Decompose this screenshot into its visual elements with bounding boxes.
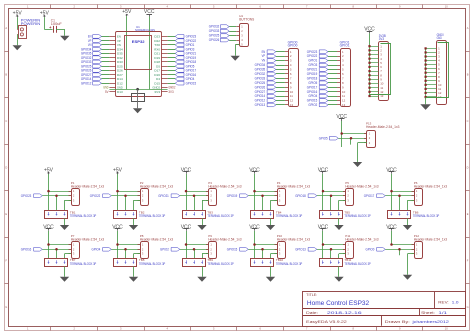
svg-text:GPIO13: GPIO13 — [295, 248, 306, 252]
ground (TB10) — [266, 277, 275, 282]
wire pin1 (P8) — [118, 244, 141, 246]
junction (P6 pin1) — [390, 190, 393, 193]
wire VCC rail (P9) — [186, 231, 188, 259]
wire POWERIN pin2 to ground — [17, 34, 19, 45]
wire +5V rail (P1) — [48, 174, 50, 211]
svg-text:E: E — [467, 212, 469, 216]
wire pin1 (P5) — [323, 191, 346, 193]
power flag VCC (P7) — [43, 224, 54, 230]
junction (P3 pin1) — [185, 190, 188, 193]
wire U1 GND bus — [109, 89, 167, 91]
svg-text:10: 10 — [342, 90, 346, 94]
junction (P3 pin2) — [193, 194, 196, 197]
svg-text:Header-Male-2.54_1x3: Header-Male-2.54_1x3 — [71, 184, 105, 188]
junction (P9 pin1) — [185, 243, 188, 246]
svg-text:G: G — [467, 305, 469, 309]
svg-text:E: E — [5, 212, 7, 216]
svg-text:GPIO16: GPIO16 — [21, 248, 32, 252]
GPIO1 net label flags — [307, 50, 337, 107]
wire pin2 (P8) — [111, 249, 140, 259]
svg-text:GPIO15: GPIO15 — [307, 99, 318, 103]
wire VCC into U1 — [149, 17, 151, 90]
wire GPIO5 to P13 pin2 — [338, 138, 367, 144]
ground (TB5) — [334, 225, 343, 230]
net flag GPIO22 (P2) — [90, 194, 112, 198]
terminal block TB2 TERMINAL BLOCK 3P — [114, 210, 166, 218]
svg-text:GPIO18: GPIO18 — [295, 194, 306, 198]
ground (TB6) — [403, 225, 412, 230]
wire pin1 (P3) — [186, 191, 209, 193]
terminal block TB7 TERMINAL BLOCK 3P — [45, 258, 97, 266]
wire TB10 to ground — [270, 267, 272, 277]
connector P10 Header-Male-2.54_1x3 — [275, 234, 311, 259]
svg-text:GPIO25: GPIO25 — [255, 81, 266, 85]
U1 right GND2 3V3 labels — [168, 86, 175, 94]
svg-text:GPIO15: GPIO15 — [227, 248, 238, 252]
wire pin1 (P10) — [255, 244, 278, 246]
power flag VCC (P11) — [318, 224, 329, 230]
net flag GPIO2 (P9) — [160, 248, 180, 252]
svg-text:GPIO17: GPIO17 — [307, 85, 318, 89]
power flag VCC (P13) — [336, 114, 347, 121]
svg-text:REV:: REV: — [438, 300, 448, 304]
wire pin3 (P3) — [202, 200, 209, 210]
svg-text:TERMINAL BLOCK 3P: TERMINAL BLOCK 3P — [413, 214, 440, 218]
wire +5V to C1 — [44, 17, 52, 29]
svg-text:C: C — [5, 119, 7, 123]
power flag +5V (P2) — [113, 167, 123, 174]
wire VCC to P13 pin1 — [342, 121, 368, 147]
wire TB6 to ground — [407, 218, 409, 225]
svg-text:GPIO22: GPIO22 — [90, 194, 101, 198]
connector GPIO0 header 1x13 — [285, 40, 299, 107]
wire TB7 to ground — [64, 267, 66, 277]
net flag GPIO15 (P10) — [227, 248, 249, 252]
junction (P12 pin2) — [398, 248, 401, 251]
net flag GPIO23 (P1) — [21, 194, 43, 198]
svg-text:GPIO14: GPIO14 — [255, 94, 266, 98]
wire +5V rail (P2) — [117, 174, 119, 211]
wire TB8 to ground — [133, 267, 135, 277]
ground (POWERIN) — [13, 45, 22, 50]
svg-text:jchambers2012: jchambers2012 — [411, 320, 449, 324]
wire VCC rail (P3) — [186, 174, 188, 211]
svg-text:GPIO4: GPIO4 — [92, 248, 101, 252]
svg-text:GPIO12: GPIO12 — [255, 99, 266, 103]
junction (P7 pin2) — [55, 248, 58, 251]
connector P2 Header-Male-2.54_1x3 — [138, 181, 174, 206]
junction (P2 pin1) — [116, 190, 119, 193]
power flag +5V (P1) — [44, 167, 54, 174]
svg-text:TERMINAL BLOCK 3P: TERMINAL BLOCK 3P — [344, 214, 371, 218]
wire pin1 (P12) — [392, 244, 415, 246]
svg-text:GPIO1: GPIO1 — [340, 44, 350, 48]
svg-text:Home Control ESP32: Home Control ESP32 — [307, 300, 370, 307]
wire pin2 (P1) — [42, 196, 71, 211]
net flag GPIO19 (P4) — [227, 194, 249, 198]
ground (TB4) — [266, 225, 275, 230]
svg-text:TERMINAL BLOCK 3P: TERMINAL BLOCK 3P — [139, 214, 166, 218]
wire pin3 (P1) — [65, 200, 72, 210]
svg-text:GPIO4: GPIO4 — [308, 94, 317, 98]
ground (H1) — [231, 56, 240, 61]
power flag VCC (P8) — [112, 224, 123, 230]
svg-text:VP: VP — [262, 54, 266, 58]
svg-text:GPIO23: GPIO23 — [307, 50, 318, 54]
connector P9 Header-Male-2.54_1x3 — [206, 234, 242, 259]
svg-text:3V3: 3V3 — [154, 90, 160, 94]
svg-text:3V3: 3V3 — [379, 37, 384, 41]
wire C1 to ground — [56, 29, 65, 36]
wire pin1 (P2) — [118, 191, 141, 193]
terminal block TB10 TERMINAL BLOCK 3P — [251, 258, 303, 266]
junction (P10 pin2) — [261, 248, 264, 251]
power flag VCC (P3) — [181, 167, 192, 173]
svg-text:GPIO5: GPIO5 — [308, 81, 317, 85]
svg-text:BUTTONS: BUTTONS — [239, 17, 254, 21]
wire pin2 (P11) — [317, 249, 346, 259]
net flag GPIO13 (P11) — [295, 248, 317, 252]
svg-text:3V3: 3V3 — [168, 90, 173, 94]
wire pin1 (P1) — [49, 191, 72, 193]
wire VCC rail (P12) — [391, 231, 393, 245]
svg-text:B: B — [5, 72, 7, 76]
connector P12 Header-Male-2.54_1x3 — [412, 234, 448, 259]
svg-text:TERMINAL BLOCK 3P: TERMINAL BLOCK 3P — [344, 262, 371, 266]
connector P4 Header-Male-2.54_1x3 — [275, 181, 311, 206]
junction (P13 pin1) — [340, 132, 343, 135]
wire TB5 to ground — [338, 218, 340, 225]
wire VCC rail (P7) — [48, 231, 50, 259]
svg-text:GPIO32: GPIO32 — [255, 72, 266, 76]
ground (TB2) — [129, 225, 138, 230]
wire pin3 (P10) — [271, 254, 278, 259]
wire pin2 (P9) — [180, 249, 209, 259]
connector P7 Header-Male-2.54_1x3 — [69, 234, 105, 259]
junction U1 GND — [136, 88, 139, 91]
wire TB11 to ground — [338, 267, 340, 277]
svg-text:12: 12 — [290, 99, 294, 103]
svg-text:GPIO34: GPIO34 — [255, 63, 266, 67]
svg-text:GPIO19: GPIO19 — [227, 194, 238, 198]
wire pin2 (P10) — [248, 249, 277, 259]
wire pin3 (P2) — [134, 200, 141, 210]
junction (P13 pin2) — [350, 137, 353, 140]
U1 left net label flags — [81, 35, 110, 86]
net flag GPIO21 (P3) — [158, 194, 180, 198]
ground (P12) — [403, 275, 412, 280]
connector POWERIN terminal block 2P — [17, 18, 40, 38]
H1 input net flags — [209, 25, 237, 43]
ground (TB3) — [197, 225, 206, 230]
wire TB3 to ground — [202, 218, 204, 225]
terminal block TB9 TERMINAL BLOCK 3P — [183, 258, 235, 266]
svg-text:11: 11 — [290, 94, 293, 98]
svg-text:13: 13 — [342, 103, 346, 107]
svg-text:2018-12-16: 2018-12-16 — [327, 311, 362, 315]
connector GPIO1 header 1x13 — [337, 40, 351, 107]
connector H1 BUTTONS — [236, 14, 254, 47]
svg-text:GPIO32: GPIO32 — [209, 25, 220, 29]
svg-text:GPIO0: GPIO0 — [366, 248, 375, 252]
svg-text:ESP32: ESP32 — [132, 39, 146, 44]
wire pin3 (P7) — [65, 254, 72, 259]
svg-text:GPIO25: GPIO25 — [209, 34, 220, 38]
svg-text:TERMINAL BLOCK 3P: TERMINAL BLOCK 3P — [70, 214, 97, 218]
wire pin2 (P2) — [111, 196, 140, 211]
svg-text:5V: 5V — [105, 90, 109, 94]
svg-text:TERMINAL BLOCK 3P: TERMINAL BLOCK 3P — [139, 262, 166, 266]
wire pin2 (P3) — [180, 196, 209, 211]
wire pin3 (P12) — [408, 254, 415, 275]
wire GND bus (GND header) — [425, 48, 427, 104]
junction dots (GND header) — [425, 47, 427, 98]
wire TB9 to ground — [202, 267, 204, 277]
svg-text:12: 12 — [342, 99, 346, 103]
connector P6 Header-Male-2.54_1x3 — [412, 181, 448, 206]
wire pin3 (P6) — [408, 200, 415, 210]
ground (TB9) — [197, 277, 206, 282]
wire U1 to ground — [137, 89, 139, 108]
svg-text:VCC: VCC — [318, 224, 329, 230]
wire VCC rail (P8) — [117, 231, 119, 259]
svg-text:GPIO1: GPIO1 — [308, 59, 317, 63]
svg-text:GND: GND — [437, 36, 443, 40]
svg-text:GPIO18: GPIO18 — [307, 76, 318, 80]
wire P13 pin3 to ground — [358, 143, 368, 163]
connector P8 Header-Male-2.54_1x3 — [138, 234, 174, 259]
svg-text:Header-Male-2.54_1x3: Header-Male-2.54_1x3 — [277, 184, 311, 188]
ground (P13) — [353, 162, 362, 167]
svg-text:VCC: VCC — [318, 167, 329, 173]
svg-text:10: 10 — [290, 90, 294, 94]
svg-text:TERMINAL BLOCK 3P: TERMINAL BLOCK 3P — [207, 214, 234, 218]
wire VCC rail (P6) — [391, 174, 393, 211]
junction (P4 pin2) — [261, 194, 264, 197]
junction (P1 pin1) — [47, 190, 50, 193]
svg-text:GPIO33: GPIO33 — [255, 76, 266, 80]
terminal block TB8 TERMINAL BLOCK 3P — [114, 258, 166, 266]
junction (P12 pin1) — [390, 243, 393, 246]
svg-text:100uF: 100uF — [51, 22, 62, 26]
svg-text:TERMINAL BLOCK 3P: TERMINAL BLOCK 3P — [276, 214, 303, 218]
module U1 NODEMCU-32S ESP32 — [109, 25, 167, 97]
svg-text:C: C — [467, 119, 469, 123]
connector P5 Header-Male-2.54_1x3 — [343, 181, 379, 206]
connector P3 Header-Male-2.54_1x3 — [206, 181, 242, 206]
svg-text:TERMINAL BLOCK 3P: TERMINAL BLOCK 3P — [207, 262, 234, 266]
ground (TB8) — [129, 277, 138, 282]
junction (P1 pin2) — [55, 194, 58, 197]
connector P1 Header-Male-2.54_1x3 — [69, 181, 105, 206]
svg-text:Header-Male-2.54_1x3: Header-Male-2.54_1x3 — [414, 184, 448, 188]
svg-text:GPIO21: GPIO21 — [307, 68, 318, 72]
connector GND0 header 1x13 — [426, 33, 447, 105]
wire VCC rail (P10) — [254, 231, 256, 259]
svg-text:GPIO13: GPIO13 — [255, 103, 266, 107]
svg-text:1/1: 1/1 — [438, 311, 447, 315]
wire pin1 (P4) — [255, 191, 278, 193]
ground (TB11) — [334, 277, 343, 282]
junction (P4 pin1) — [253, 190, 256, 193]
power flag VCC (U1) — [144, 9, 155, 16]
wire TB2 to ground — [133, 218, 135, 225]
junction dots (3V3 header) — [368, 45, 370, 97]
wire pin2 (P6) — [385, 196, 414, 211]
svg-text:GPIO3: GPIO3 — [308, 63, 317, 67]
svg-text:11: 11 — [342, 94, 345, 98]
junction (P6 pin2) — [398, 194, 401, 197]
svg-text:GPIO35: GPIO35 — [255, 68, 266, 72]
svg-text:GPIO26: GPIO26 — [255, 85, 266, 89]
wire TB1 to ground — [64, 218, 66, 225]
svg-text:GPIO17: GPIO17 — [364, 194, 375, 198]
svg-text:GPIO26: GPIO26 — [209, 38, 220, 42]
wire pin2 (P4) — [248, 196, 277, 211]
U1 left GND 5V labels — [103, 86, 109, 94]
ground (U1) — [133, 108, 142, 113]
title block — [303, 292, 466, 327]
net flag GPIO18 (P5) — [295, 194, 317, 198]
connector 3V3B header 1x13 — [370, 34, 389, 101]
jumper box below U1 — [132, 94, 145, 102]
terminal block TB5 TERMINAL BLOCK 3P — [320, 210, 372, 218]
svg-text:EasyEDA V5.9.22: EasyEDA V5.9.22 — [306, 320, 347, 324]
power flag VCC (P9) — [181, 224, 192, 230]
svg-text:D13: D13 — [117, 90, 123, 94]
svg-text:B: B — [467, 72, 469, 76]
junction (P5 pin1) — [322, 190, 325, 193]
GPIO0 net label flags — [255, 50, 285, 107]
terminal block TB11 TERMINAL BLOCK 3P — [320, 258, 372, 266]
svg-text:GPIO27: GPIO27 — [255, 90, 266, 94]
svg-text:13: 13 — [290, 103, 294, 107]
ground (C1) — [60, 36, 69, 41]
wire VCC rail (P5) — [322, 174, 324, 211]
power flag VCC (P4) — [249, 167, 260, 173]
wire pin3 (P11) — [339, 254, 346, 259]
net flag GPIO5 (P13) — [319, 136, 338, 140]
junction (P10 pin1) — [253, 243, 256, 246]
wire TB4 to ground — [270, 218, 272, 225]
capacitor C1 100uF — [49, 18, 62, 32]
svg-text:Header-Male-2.54_1x3: Header-Male-2.54_1x3 — [366, 125, 400, 129]
ground (TB1) — [60, 225, 69, 230]
wire pin1 (P6) — [392, 191, 415, 193]
wire pin2 (P12) — [385, 249, 414, 255]
svg-text:GPIO5: GPIO5 — [319, 136, 328, 140]
wire pin1 (P9) — [186, 244, 209, 246]
svg-text:GPIO16: GPIO16 — [307, 90, 318, 94]
junction (P5 pin2) — [330, 194, 333, 197]
wire wrap (GND header) — [426, 43, 449, 98]
svg-text:EN: EN — [262, 50, 266, 54]
svg-text:Date:: Date: — [306, 311, 318, 315]
svg-text:Drawn By:: Drawn By: — [385, 320, 410, 324]
wire pin3 (P8) — [134, 254, 141, 259]
svg-text:GPIO22: GPIO22 — [307, 54, 318, 58]
wire pin3 (P4) — [271, 200, 278, 210]
wire VCC bus (3V3 header) — [369, 33, 371, 96]
power flag VCC (P12) — [386, 224, 397, 230]
svg-text:1.0: 1.0 — [452, 300, 459, 304]
terminal block TB1 TERMINAL BLOCK 3P — [45, 210, 97, 218]
svg-text:D: D — [5, 166, 7, 170]
svg-text:GPIO19: GPIO19 — [307, 72, 318, 76]
svg-text:D: D — [467, 166, 469, 170]
wire pin3 (P9) — [202, 254, 209, 259]
svg-text:Sheet:: Sheet: — [421, 311, 435, 315]
junction (P11 pin2) — [330, 248, 333, 251]
wire pin2 (P5) — [317, 196, 346, 211]
svg-text:A: A — [5, 26, 7, 30]
terminal block TB4 TERMINAL BLOCK 3P — [251, 210, 303, 218]
svg-text:GPIO2: GPIO2 — [160, 248, 169, 252]
ground (TB7) — [60, 277, 69, 282]
power flag VCC (3V3 header) — [364, 26, 375, 33]
ground (GND header) — [420, 104, 431, 110]
junction (P8 pin2) — [124, 248, 127, 251]
svg-text:GPIO21: GPIO21 — [158, 194, 169, 198]
svg-text:GPIO0: GPIO0 — [288, 44, 298, 48]
net flag GPIO0 (P12) — [366, 248, 386, 252]
wire VCC rail (P11) — [322, 231, 324, 259]
wire +5V to POWERIN pin1 — [17, 17, 19, 29]
svg-text:GPIO23: GPIO23 — [21, 194, 32, 198]
wire wrap (3V3 header) — [370, 44, 391, 95]
terminal block TB6 TERMINAL BLOCK 3P — [388, 210, 440, 218]
svg-text:Header-Male-2.54_1x3: Header-Male-2.54_1x3 — [345, 184, 379, 188]
svg-text:GPIO2: GPIO2 — [308, 103, 317, 107]
wire pin2 (P7) — [42, 249, 71, 259]
svg-text:Header-Male-2.54_1x3: Header-Male-2.54_1x3 — [208, 184, 242, 188]
svg-text:Header-Male-2.54_1x3: Header-Male-2.54_1x3 — [140, 184, 174, 188]
junction (P8 pin1) — [116, 243, 119, 246]
connector P11 Header-Male-2.54_1x3 — [343, 234, 379, 259]
junction (P2 pin2) — [124, 194, 127, 197]
wire H1 pin5 to ground — [235, 45, 239, 56]
power flag VCC (P6) — [386, 167, 397, 173]
net flag GPIO4 (P8) — [92, 248, 112, 252]
wire pin3 (P5) — [339, 200, 346, 210]
svg-text:GPIO12: GPIO12 — [81, 81, 92, 85]
terminal block TB3 TERMINAL BLOCK 3P — [183, 210, 235, 218]
junction (P11 pin1) — [322, 243, 325, 246]
power flag +5V (U1) — [122, 9, 132, 16]
power flag +5V (POWERIN) — [13, 10, 23, 17]
power flag VCC (P5) — [318, 167, 329, 173]
junction (P9 pin2) — [193, 248, 196, 251]
svg-text:VN: VN — [262, 59, 266, 63]
svg-text:TERMINAL BLOCK 3P: TERMINAL BLOCK 3P — [276, 262, 303, 266]
wire VCC rail (P4) — [254, 174, 256, 211]
svg-text:GPIO15: GPIO15 — [186, 81, 197, 85]
wire +5V into U1 — [126, 16, 128, 89]
svg-text:TITLE:: TITLE: — [306, 293, 317, 297]
svg-text:A: A — [467, 26, 469, 30]
power flag VCC (P10) — [249, 224, 260, 230]
wire pin1 (P11) — [323, 244, 346, 246]
net flag GPIO17 (P6) — [364, 194, 386, 198]
U1 right net label flags — [168, 35, 197, 86]
power flag +5V (C1) — [40, 10, 50, 17]
svg-text:TERMINAL BLOCK 3P: TERMINAL BLOCK 3P — [70, 262, 97, 266]
svg-text:G: G — [5, 305, 7, 309]
junction (P7 pin1) — [47, 243, 50, 246]
net flag GPIO16 (P7) — [21, 248, 43, 252]
connector P13 Header-Male-2.54_1x3 — [364, 122, 400, 148]
svg-text:GPIO33: GPIO33 — [209, 29, 220, 33]
